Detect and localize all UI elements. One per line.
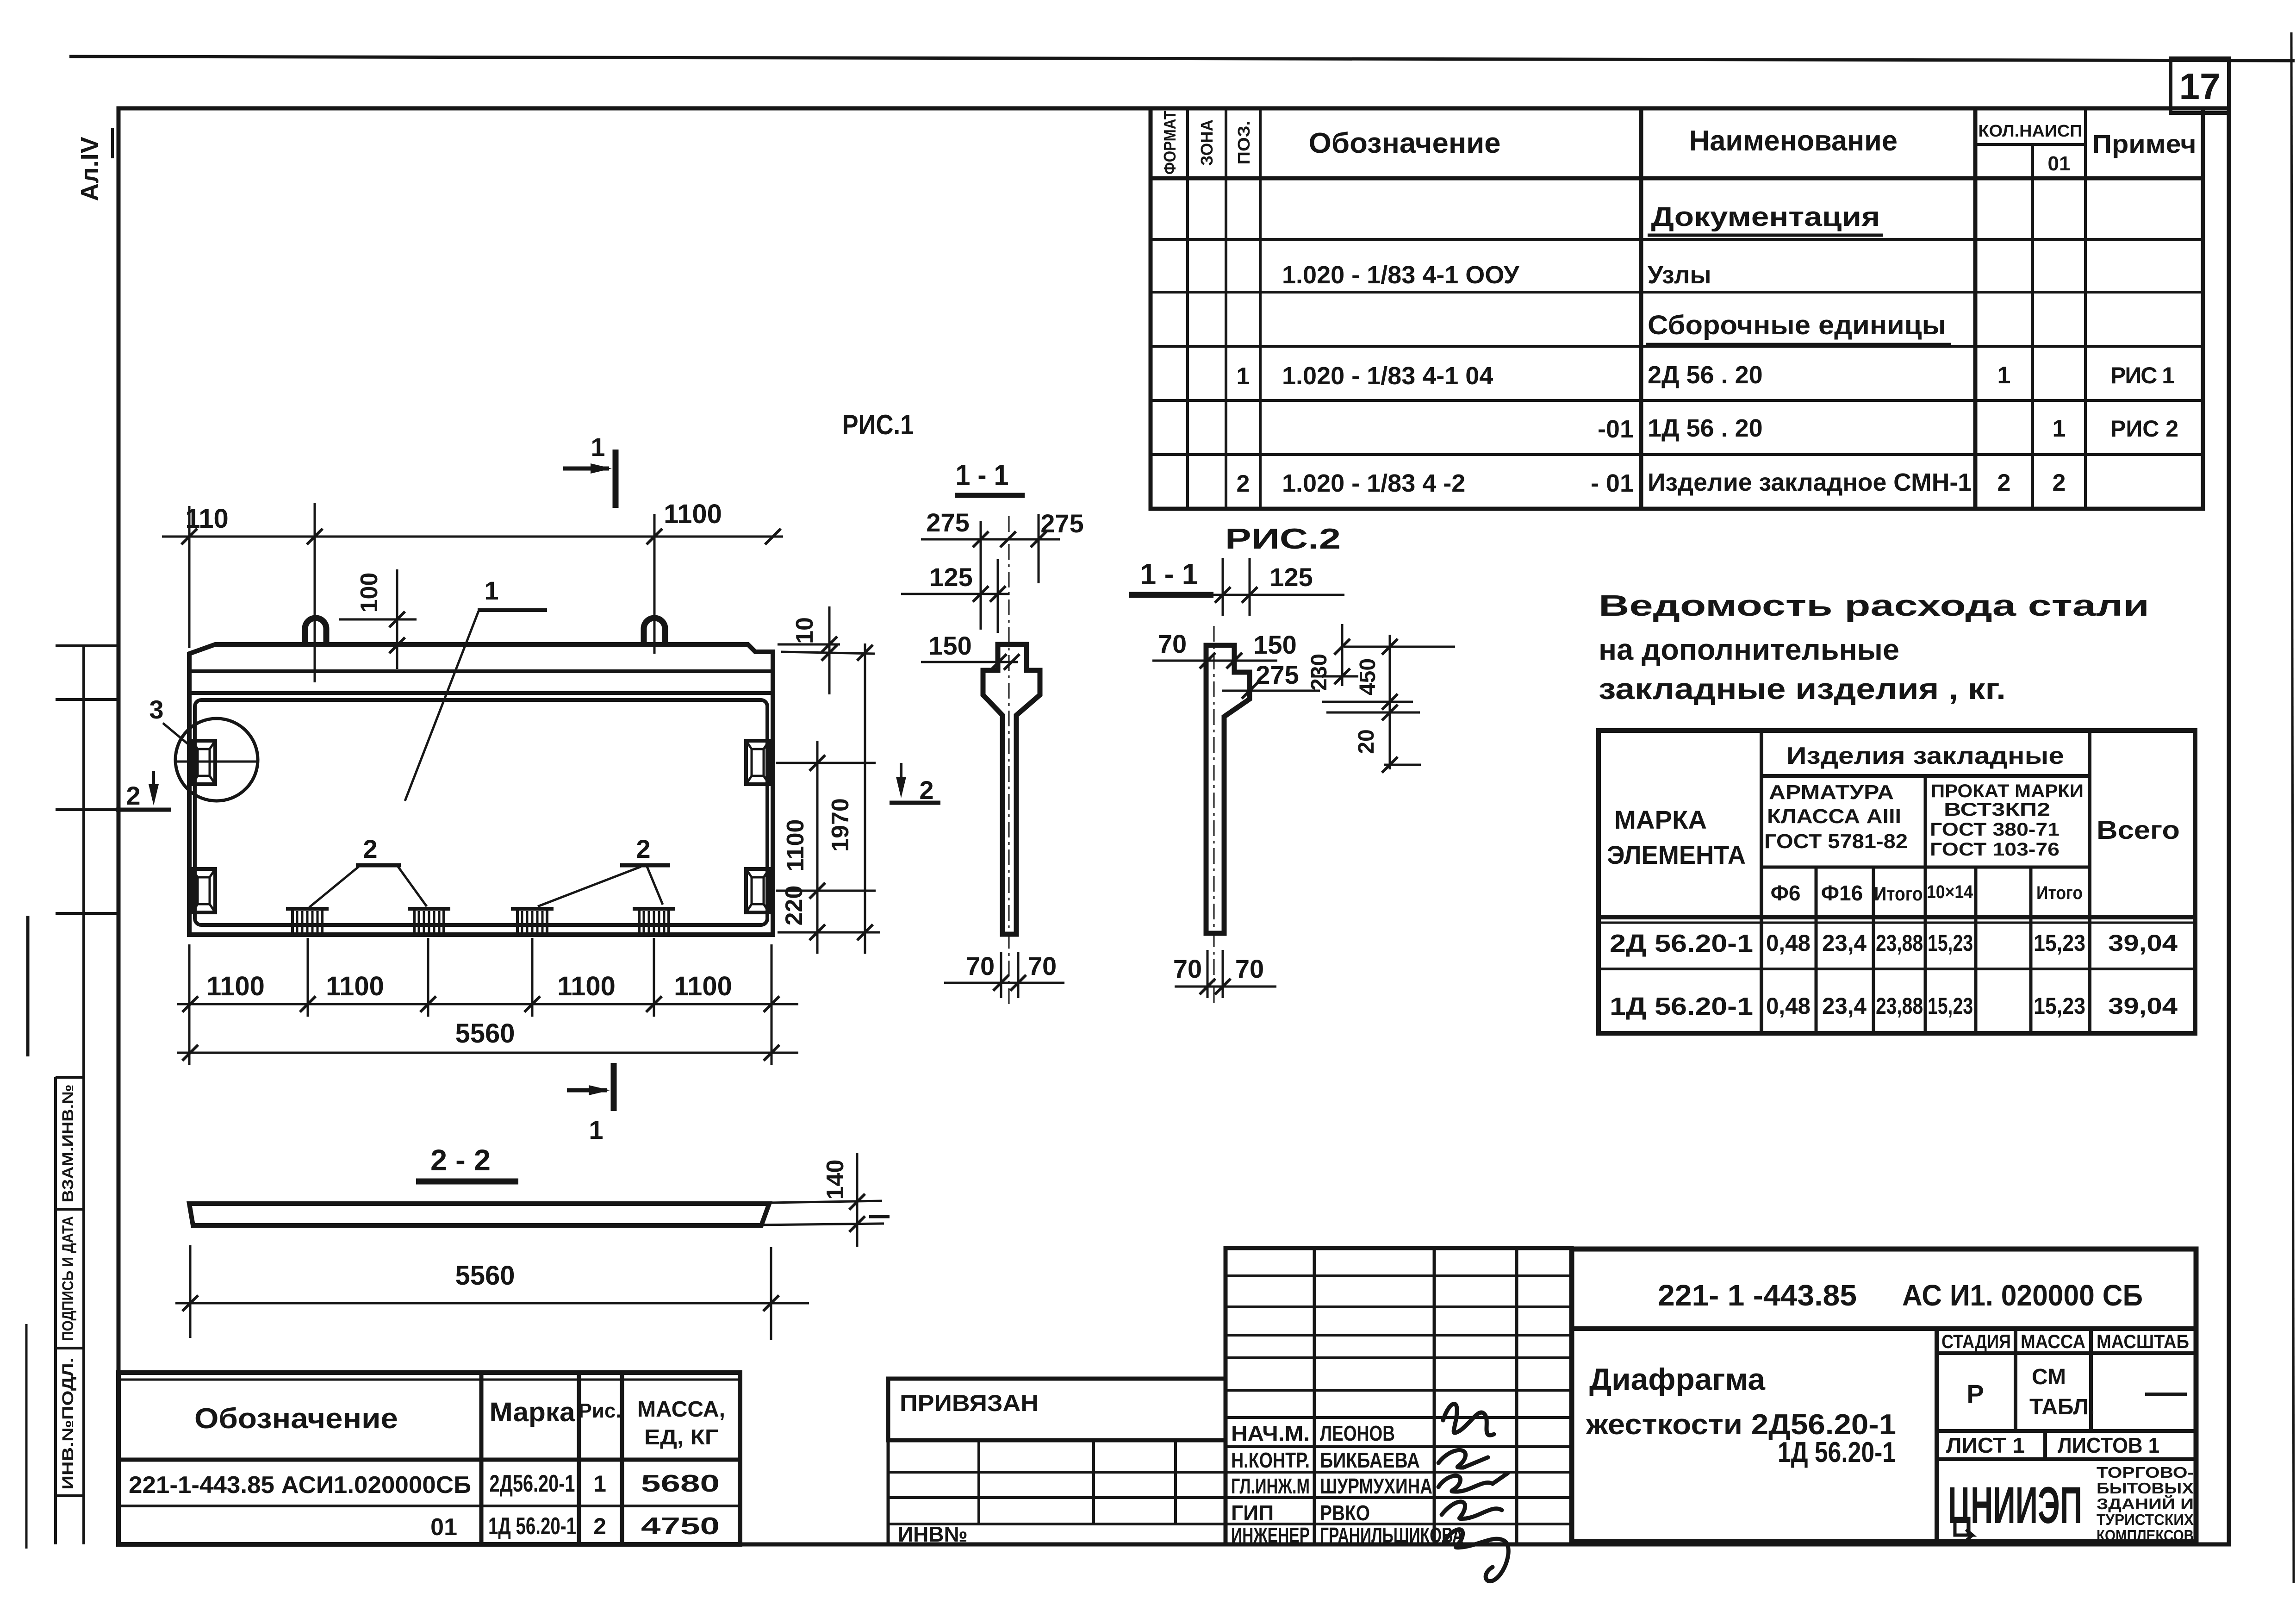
specification table grid bbox=[1151, 108, 2203, 509]
svg-text:1: 1 bbox=[1237, 363, 1250, 390]
svg-text:Изделие закладное СМН-1: Изделие закладное СМН-1 bbox=[1648, 468, 1972, 496]
svg-text:70: 70 bbox=[1028, 951, 1057, 981]
bottom embed 3 bbox=[511, 907, 554, 911]
section 2-2 slab bbox=[189, 1204, 769, 1225]
svg-text:1Д 56 . 20: 1Д 56 . 20 bbox=[1648, 414, 1763, 442]
svg-text:15,23: 15,23 bbox=[1928, 930, 1973, 956]
svg-text:1100: 1100 bbox=[664, 499, 722, 529]
svg-text:2: 2 bbox=[126, 781, 140, 810]
section 1-1 left: dim 275+275 bbox=[921, 538, 1060, 541]
section 1-1 left: profile bbox=[983, 644, 1040, 934]
svg-text:39,04: 39,04 bbox=[2108, 930, 2178, 956]
title block list row bbox=[1937, 1429, 2196, 1433]
svg-text:СТАДИЯ: СТАДИЯ bbox=[1941, 1330, 2011, 1352]
svg-text:1: 1 bbox=[2053, 415, 2066, 442]
svg-text:2Д 56.20-1: 2Д 56.20-1 bbox=[1610, 930, 1753, 957]
svg-text:5560: 5560 bbox=[455, 1018, 515, 1049]
sheet number box 17 bbox=[2171, 58, 2229, 113]
svg-text:Ф16: Ф16 bbox=[1821, 881, 1863, 905]
right dim 1970 bbox=[864, 643, 866, 954]
svg-text:01: 01 bbox=[2048, 152, 2071, 175]
edge embed right top bbox=[746, 741, 769, 784]
svg-text:ГИП: ГИП bbox=[1231, 1501, 1274, 1525]
svg-text:ПОЗ.: ПОЗ. bbox=[1234, 121, 1253, 165]
svg-text:110: 110 bbox=[185, 504, 229, 534]
svg-text:ИНВ.№ПОДЛ.: ИНВ.№ПОДЛ. bbox=[59, 1358, 77, 1490]
svg-text:01: 01 bbox=[430, 1514, 457, 1541]
bottom embed 1 bbox=[286, 907, 329, 911]
svg-text:РИС 2: РИС 2 bbox=[2110, 416, 2178, 442]
svg-text:РИС.2: РИС.2 bbox=[1225, 523, 1341, 555]
svg-text:2: 2 bbox=[1237, 470, 1250, 497]
svg-text:17: 17 bbox=[2179, 66, 2221, 107]
bottom embed 4 bbox=[633, 907, 675, 911]
svg-text:1970: 1970 bbox=[827, 798, 854, 852]
svg-text:Р: Р bbox=[1966, 1379, 1984, 1408]
svg-text:ТАБЛ.: ТАБЛ. bbox=[2029, 1395, 2095, 1419]
svg-text:1Д 56.20-1: 1Д 56.20-1 bbox=[1778, 1437, 1896, 1468]
svg-text:2: 2 bbox=[636, 834, 650, 863]
svg-text:221-1-443.85 АСИ1.020000СБ: 221-1-443.85 АСИ1.020000СБ bbox=[129, 1472, 471, 1499]
svg-text:ИНЖЕНЕР: ИНЖЕНЕР bbox=[1231, 1523, 1310, 1547]
paper right edge line bbox=[2291, 32, 2294, 1583]
svg-text:Ф6: Ф6 bbox=[1771, 881, 1801, 905]
title block outer bbox=[1572, 1249, 2196, 1542]
svg-text:1: 1 bbox=[484, 576, 498, 605]
section 1-1 right: dim 450 and 20 bbox=[1344, 646, 1455, 648]
svg-text:НАЧ.М.: НАЧ.М. bbox=[1231, 1421, 1310, 1445]
detail circle 3 bbox=[175, 718, 258, 801]
svg-text:АРМАТУРА: АРМАТУРА bbox=[1769, 781, 1894, 804]
section 1-1 left: centerline bbox=[1008, 516, 1010, 1005]
svg-text:БИКБАЕВА: БИКБАЕВА bbox=[1320, 1448, 1420, 1472]
right dim chain 1100 / 220 bbox=[776, 762, 876, 764]
svg-text:Марка: Марка bbox=[490, 1397, 576, 1427]
svg-text:МАСШТАБ: МАСШТАБ bbox=[2097, 1330, 2189, 1352]
svg-text:5680: 5680 bbox=[641, 1470, 720, 1497]
svg-text:1: 1 bbox=[591, 432, 605, 462]
small dash left of privyazan bbox=[869, 1215, 890, 1218]
lifting loop 1 bbox=[305, 618, 326, 644]
section mark 1 (top) bbox=[613, 450, 619, 508]
svg-text:ТУРИСТСКИХ: ТУРИСТСКИХ bbox=[2097, 1511, 2194, 1528]
svg-text:1100: 1100 bbox=[674, 971, 732, 1001]
bottom extension lines bbox=[188, 944, 191, 1065]
svg-text:Сборочные единицы: Сборочные единицы bbox=[1648, 310, 1946, 340]
svg-text:1100: 1100 bbox=[557, 971, 616, 1001]
svg-text:Итого: Итого bbox=[1874, 883, 1923, 905]
bottom dim 5560 bbox=[177, 1052, 798, 1054]
svg-text:Обозначение: Обозначение bbox=[194, 1403, 398, 1435]
svg-text:3: 3 bbox=[149, 695, 163, 724]
section 1-1 right: centerline bbox=[1213, 626, 1215, 1007]
svg-text:на дополнительные: на дополнительные bbox=[1599, 633, 1899, 666]
svg-text:1: 1 bbox=[593, 1471, 606, 1497]
section mark 2 (right) bbox=[900, 763, 902, 792]
svg-text:2: 2 bbox=[919, 775, 933, 805]
signature table grid bbox=[1226, 1248, 1572, 1544]
edge embed right bottom bbox=[746, 869, 769, 912]
svg-text:ГЛ.ИНЖ.М: ГЛ.ИНЖ.М bbox=[1231, 1474, 1310, 1498]
section 1-1 right: dim 70 (top) bbox=[1152, 660, 1277, 662]
svg-text:Обозначение: Обозначение bbox=[1309, 127, 1501, 159]
steel table grid bbox=[1599, 731, 2195, 1033]
svg-text:ШУРМУХИНА: ШУРМУХИНА bbox=[1320, 1474, 1432, 1498]
title block stage cols bbox=[1937, 1351, 2196, 1355]
svg-text:Изделия закладные: Изделия закладные bbox=[1786, 743, 2064, 769]
svg-text:Ал.IV: Ал.IV bbox=[76, 137, 104, 201]
svg-text:450: 450 bbox=[1356, 658, 1380, 695]
section 2-2 dim 5560 bbox=[189, 1245, 192, 1338]
svg-text:ЦНИИЭП: ЦНИИЭП bbox=[1948, 1476, 2082, 1534]
svg-text:ЛЕОНОВ: ЛЕОНОВ bbox=[1320, 1421, 1395, 1445]
svg-text:КЛАССА АIII: КЛАССА АIII bbox=[1767, 805, 1901, 828]
svg-text:5560: 5560 bbox=[455, 1261, 515, 1291]
svg-text:ФОРМАТ: ФОРМАТ bbox=[1160, 111, 1179, 175]
left margin stamp column bbox=[82, 646, 85, 1544]
svg-text:-01: -01 bbox=[1598, 415, 1634, 443]
svg-text:10×14: 10×14 bbox=[1927, 882, 1973, 902]
svg-text:МАССА,: МАССА, bbox=[637, 1397, 725, 1422]
svg-text:Итого: Итого bbox=[2036, 883, 2083, 903]
svg-text:ИНВ№: ИНВ№ bbox=[898, 1522, 968, 1546]
svg-text:ПРИВЯЗАН: ПРИВЯЗАН bbox=[900, 1390, 1039, 1416]
svg-text:ГОСТ 380-71: ГОСТ 380-71 bbox=[1930, 819, 2060, 840]
svg-text:РВКО: РВКО bbox=[1320, 1501, 1370, 1525]
svg-text:РИС 1: РИС 1 bbox=[2110, 362, 2174, 388]
svg-text:1.020 - 1/83 4 -2: 1.020 - 1/83 4 -2 bbox=[1282, 469, 1465, 497]
svg-text:СМ: СМ bbox=[2032, 1365, 2066, 1389]
svg-text:Рис.: Рис. bbox=[578, 1399, 621, 1422]
svg-text:ВЗАМ.ИНВ.№: ВЗАМ.ИНВ.№ bbox=[59, 1085, 77, 1203]
svg-text:275: 275 bbox=[1256, 660, 1299, 689]
step dim 10 (top right) bbox=[778, 643, 840, 646]
svg-text:23,88: 23,88 bbox=[1876, 993, 1923, 1019]
svg-text:1: 1 bbox=[589, 1115, 603, 1144]
svg-text:140: 140 bbox=[822, 1160, 849, 1200]
svg-text:275: 275 bbox=[1040, 509, 1083, 538]
svg-text:23,4: 23,4 bbox=[1822, 930, 1867, 956]
svg-text:150: 150 bbox=[928, 631, 971, 660]
svg-text:275: 275 bbox=[926, 508, 969, 537]
panel outline (РИС.1) bbox=[189, 644, 773, 935]
svg-text:221- 1 -443.85: 221- 1 -443.85 bbox=[1658, 1279, 1857, 1312]
svg-text:1100: 1100 bbox=[326, 971, 384, 1001]
lifting loop 2 bbox=[644, 618, 665, 644]
svg-text:2Д 56 . 20: 2Д 56 . 20 bbox=[1648, 361, 1763, 389]
section 1-1 left: dim 150 bbox=[921, 661, 1018, 663]
section mark 1 (bottom) bbox=[611, 1063, 617, 1111]
section 1-1 right: dim 230 bbox=[1341, 624, 1344, 686]
svg-text:15,23: 15,23 bbox=[2034, 993, 2085, 1019]
section 2-2 extension lines 140 bbox=[769, 1201, 882, 1203]
svg-text:70: 70 bbox=[966, 951, 995, 981]
svg-text:ЛИСТ 1: ЛИСТ 1 bbox=[1946, 1433, 2025, 1457]
edge embed left bottom bbox=[192, 869, 215, 912]
svg-text:ТОРГОВО-: ТОРГОВО- bbox=[2097, 1464, 2194, 1481]
signatures (cursive strokes) bbox=[1438, 1404, 1508, 1581]
section 1-1 right: dim 275 bbox=[1222, 690, 1320, 692]
svg-text:1 - 1: 1 - 1 bbox=[956, 458, 1009, 492]
svg-text:2: 2 bbox=[593, 1513, 606, 1539]
svg-text:Ведомость расхода стали: Ведомость расхода стали bbox=[1599, 589, 2149, 622]
svg-text:2: 2 bbox=[1997, 469, 2011, 496]
section 1-1 right: bottom dim 70/70 bbox=[1207, 950, 1209, 998]
svg-text:70: 70 bbox=[1173, 954, 1202, 983]
bottom embed 2 bbox=[408, 907, 450, 911]
svg-text:Наименование: Наименование bbox=[1689, 125, 1898, 157]
svg-text:23,88: 23,88 bbox=[1876, 930, 1923, 956]
svg-text:70: 70 bbox=[1235, 954, 1264, 983]
svg-text:Всего: Всего bbox=[2097, 815, 2180, 844]
svg-text:БЫТОВЫХ: БЫТОВЫХ bbox=[2097, 1480, 2194, 1497]
svg-text:23,4: 23,4 bbox=[1822, 993, 1867, 1019]
svg-text:4750: 4750 bbox=[641, 1513, 720, 1540]
svg-text:1.020 - 1/83 4-1 04: 1.020 - 1/83 4-1 04 bbox=[1282, 362, 1493, 390]
svg-text:- 01: - 01 bbox=[1591, 469, 1634, 497]
axis line through left top embed bbox=[175, 761, 259, 763]
svg-text:220: 220 bbox=[781, 886, 808, 926]
svg-text:Н.КОНТР.: Н.КОНТР. bbox=[1231, 1448, 1310, 1472]
svg-text:Документация: Документация bbox=[1651, 202, 1880, 232]
svg-text:1Д 56.20-1: 1Д 56.20-1 bbox=[1610, 993, 1753, 1020]
top dimension line 110 / 1100 bbox=[162, 536, 783, 538]
svg-text:1 - 1: 1 - 1 bbox=[1140, 557, 1198, 591]
svg-text:АС И1. 020000 СБ: АС И1. 020000 СБ bbox=[1902, 1279, 2143, 1312]
svg-text:125: 125 bbox=[1269, 562, 1313, 592]
svg-text:КОЛ.НАИСП: КОЛ.НАИСП bbox=[1979, 121, 2083, 140]
svg-text:125: 125 bbox=[929, 562, 972, 592]
svg-text:2: 2 bbox=[2053, 469, 2066, 496]
svg-text:ВСТ3КП2: ВСТ3КП2 bbox=[1944, 800, 2050, 820]
svg-text:1100: 1100 bbox=[782, 819, 809, 872]
left paper edge fragment bbox=[26, 916, 30, 1056]
bottom-left table grid bbox=[118, 1373, 740, 1544]
svg-text:ПОДПИСЬ И ДАТА: ПОДПИСЬ И ДАТА bbox=[59, 1216, 77, 1341]
svg-text:ЗОНА: ЗОНА bbox=[1197, 119, 1216, 166]
svg-text:Диафрагма: Диафрагма bbox=[1589, 1362, 1766, 1396]
svg-text:Узлы: Узлы bbox=[1648, 261, 1711, 289]
svg-text:КОМПЛЕКСОВ: КОМПЛЕКСОВ bbox=[2097, 1527, 2194, 1544]
svg-text:закладные изделия , кг.: закладные изделия , кг. bbox=[1599, 672, 2006, 706]
panel top strip lines bbox=[189, 669, 773, 673]
section 1-1 left: bottom dim 70/70 bbox=[1000, 952, 1002, 998]
svg-text:0,48: 0,48 bbox=[1766, 993, 1811, 1019]
svg-text:ГРАНИЛЬШИКОВА: ГРАНИЛЬШИКОВА bbox=[1320, 1523, 1463, 1547]
svg-text:230: 230 bbox=[1307, 654, 1332, 691]
section 1-1 right: profile bbox=[1206, 645, 1250, 933]
svg-text:0,48: 0,48 bbox=[1766, 930, 1811, 956]
privyazan lower grid bbox=[888, 1440, 1226, 1544]
svg-text:Примеч: Примеч bbox=[2092, 129, 2196, 158]
svg-text:ЗДАНИЙ И: ЗДАНИЙ И bbox=[2097, 1495, 2194, 1512]
section 1-1 left: dim 125 bbox=[901, 593, 1009, 595]
svg-text:ПРОКАТ МАРКИ: ПРОКАТ МАРКИ bbox=[1931, 781, 2084, 801]
bottom dim row 1100s bbox=[177, 1003, 798, 1006]
svg-text:1: 1 bbox=[1997, 362, 2011, 389]
svg-text:1.020 - 1/83 4-1 ООУ: 1.020 - 1/83 4-1 ООУ bbox=[1282, 261, 1520, 289]
svg-text:2Д56.20-1: 2Д56.20-1 bbox=[490, 1470, 575, 1497]
title block name cell bbox=[1935, 1329, 1939, 1542]
svg-text:жесткости 2Д56.20-1: жесткости 2Д56.20-1 bbox=[1586, 1409, 1896, 1441]
svg-text:ЛИСТОВ 1: ЛИСТОВ 1 bbox=[2058, 1433, 2159, 1457]
svg-text:39,04: 39,04 bbox=[2108, 993, 2178, 1019]
title block top band 221-1-443.85 bbox=[1572, 1326, 2196, 1331]
svg-text:РИС.1: РИС.1 bbox=[842, 409, 914, 440]
privyazan box bbox=[888, 1379, 1226, 1440]
svg-text:10: 10 bbox=[791, 617, 818, 644]
svg-text:ЕД, КГ: ЕД, КГ bbox=[644, 1425, 718, 1449]
loop height dim 100 bbox=[339, 618, 417, 621]
svg-text:1100: 1100 bbox=[206, 971, 265, 1001]
section 1-1 right: dim 125 bbox=[1213, 594, 1344, 596]
svg-text:ГОСТ 103-76: ГОСТ 103-76 bbox=[1930, 839, 2060, 860]
svg-text:100: 100 bbox=[356, 573, 383, 613]
svg-text:1Д 56.20-1: 1Д 56.20-1 bbox=[488, 1513, 576, 1540]
svg-text:ГОСТ 5781-82: ГОСТ 5781-82 bbox=[1764, 830, 1908, 853]
page top rule bbox=[69, 56, 2295, 61]
edge embed left top (detail 3) bbox=[192, 741, 215, 784]
section line through loop 2 bbox=[653, 514, 656, 654]
svg-text:150: 150 bbox=[1253, 630, 1296, 659]
svg-text:15,23: 15,23 bbox=[1928, 993, 1973, 1019]
svg-text:15,23: 15,23 bbox=[2034, 930, 2085, 956]
svg-text:МАССА: МАССА bbox=[2021, 1330, 2085, 1352]
panel inner rectangle bbox=[195, 700, 767, 925]
svg-text:20: 20 bbox=[1354, 729, 1379, 754]
svg-text:70: 70 bbox=[1158, 629, 1187, 658]
svg-text:МАРКА: МАРКА bbox=[1614, 805, 1707, 834]
svg-text:2 - 2: 2 - 2 bbox=[430, 1143, 491, 1177]
svg-text:2: 2 bbox=[363, 834, 377, 863]
svg-text:ЭЛЕМЕНТА: ЭЛЕМЕНТА bbox=[1607, 840, 1746, 869]
